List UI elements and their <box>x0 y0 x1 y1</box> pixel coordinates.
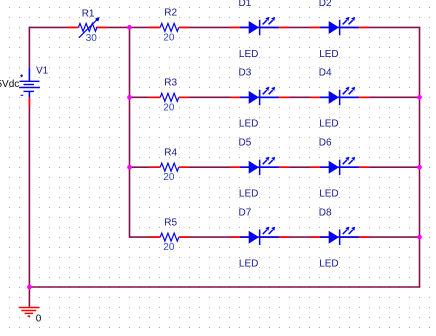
svg-text:0: 0 <box>36 314 42 325</box>
junction right rail row 3 junction <box>417 165 422 170</box>
svg-text:D8: D8 <box>319 208 332 219</box>
LED D4 <box>310 87 369 105</box>
wire bottom horizontal net <box>29 286 420 288</box>
wire row 4 horizontal: R5 to right rail <box>180 236 420 238</box>
wire row 2 horizontal: R3 to right rail <box>180 96 420 98</box>
svg-text:D7: D7 <box>239 208 252 219</box>
svg-text:V1: V1 <box>36 66 49 77</box>
voltage source V1 5Vdc battery symbol <box>19 68 40 107</box>
svg-text:R5: R5 <box>164 217 177 228</box>
svg-text:D1: D1 <box>239 0 252 9</box>
svg-text:20: 20 <box>163 242 175 253</box>
wire left rail upper: top corner to V1 <box>28 27 30 68</box>
svg-text:D6: D6 <box>319 138 332 149</box>
svg-text:5Vdc: 5Vdc <box>0 79 19 90</box>
junction bus top junction <box>127 25 132 30</box>
LED D2 <box>310 17 369 35</box>
svg-text:20: 20 <box>163 172 175 183</box>
wire row 3 horizontal: bus to R4 <box>130 166 161 168</box>
LED D5 <box>230 157 289 175</box>
svg-text:D2: D2 <box>319 0 332 9</box>
wire top net: R1 to R2 (through bus junction) <box>96 26 160 28</box>
LED D8 <box>310 227 369 245</box>
LED D7 <box>230 227 289 245</box>
junction bus row 3 junction <box>127 165 132 170</box>
svg-text:R1: R1 <box>82 8 95 19</box>
wire row 3 horizontal: R4 to right rail <box>180 166 420 168</box>
svg-text:R2: R2 <box>164 8 177 19</box>
resistor R5 (20 ohm) <box>149 233 190 241</box>
svg-text:R3: R3 <box>164 78 177 89</box>
svg-text:LED: LED <box>319 189 338 200</box>
LED D3 <box>230 87 289 105</box>
svg-text:20: 20 <box>163 102 175 113</box>
junction ground tap junction <box>27 285 32 290</box>
svg-text:LED: LED <box>239 259 258 270</box>
R1 wiper arrow <box>79 20 96 37</box>
svg-text:LED: LED <box>319 259 338 270</box>
resistor R2 (20 ohm) <box>149 23 190 31</box>
svg-text:LED: LED <box>239 49 258 60</box>
LED D6 <box>310 157 369 175</box>
svg-text:D5: D5 <box>239 138 252 149</box>
svg-text:D3: D3 <box>239 68 252 79</box>
junction right rail row 4 junction <box>417 235 422 240</box>
LED D1 <box>230 17 289 35</box>
svg-text:20: 20 <box>163 32 175 43</box>
ground symbol (node 0) <box>19 308 40 317</box>
wire left rail lower: V1 to bottom corner and ground tap <box>28 97 30 307</box>
svg-text:LED: LED <box>319 119 338 130</box>
wire row 2 horizontal: bus to R3 <box>130 96 161 98</box>
svg-text:LED: LED <box>239 119 258 130</box>
svg-text:30: 30 <box>86 33 98 44</box>
resistor R3 (20 ohm) <box>149 93 190 101</box>
junction bus row 2 junction <box>127 95 132 100</box>
wire top net: R2 to right rail corner <box>180 26 421 28</box>
resistor R1 (variable, 30 ohm) <box>67 17 108 38</box>
svg-text:R4: R4 <box>164 147 177 158</box>
resistor R4 (20 ohm) <box>149 163 190 171</box>
junction right rail row 2 junction <box>417 95 422 100</box>
wire top net: left rail top to R1 <box>29 26 77 28</box>
svg-text:D4: D4 <box>319 68 332 79</box>
wire bus vertical from top junction down to row 4 elbow <box>130 27 161 237</box>
svg-text:LED: LED <box>239 189 258 200</box>
svg-text:LED: LED <box>319 49 338 60</box>
wire right rail vertical <box>419 27 421 287</box>
